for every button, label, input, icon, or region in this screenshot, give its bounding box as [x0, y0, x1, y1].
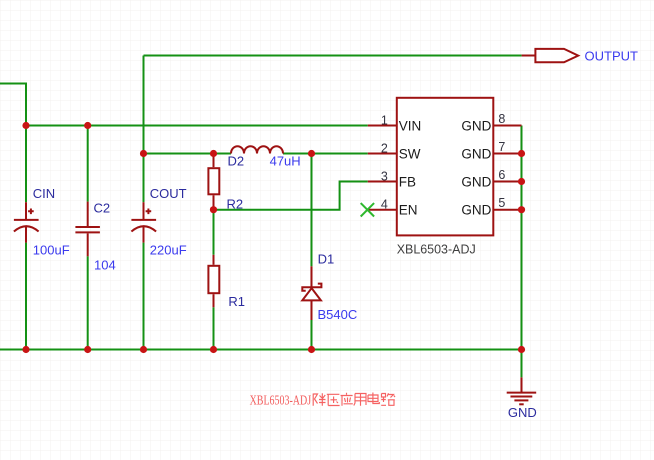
svg-text:OUTPUT: OUTPUT	[585, 48, 639, 63]
junction pin 5 / GND vertical	[518, 206, 525, 213]
char lu	[381, 393, 395, 405]
junction C2 / VIN rail	[84, 122, 91, 129]
svg-text:47uH: 47uH	[270, 153, 301, 168]
junction R2 bottom / FB net	[210, 206, 217, 213]
pin 8 stub	[493, 125, 521, 127]
junction pin 6 / GND vertical	[518, 178, 525, 185]
diode D1 B540C schottky	[302, 266, 321, 320]
svg-text:7: 7	[498, 140, 505, 154]
pin 1 stub	[368, 125, 397, 127]
svg-text:COUT: COUT	[150, 186, 187, 201]
wire R1 top	[213, 210, 215, 255]
svg-text:GND: GND	[461, 147, 491, 162]
svg-text:104: 104	[94, 257, 116, 272]
char dian	[368, 393, 379, 404]
svg-text:3: 3	[381, 170, 388, 184]
capacitor C2	[75, 202, 100, 257]
junction OUTPUT node / SW rail	[140, 150, 147, 157]
svg-text:D2: D2	[228, 153, 245, 168]
svg-text:GND: GND	[461, 118, 491, 133]
char ying	[341, 393, 353, 406]
wire OUTPUT vertical	[143, 56, 145, 203]
capacitor COUT	[131, 202, 156, 242]
pin 3 stub	[368, 181, 397, 183]
svg-text:R2: R2	[227, 196, 244, 211]
wire D1 drop	[311, 154, 313, 267]
wire ground rail	[0, 349, 522, 351]
pin 4 stub	[368, 209, 397, 211]
junction COUT / ground rail	[140, 346, 147, 353]
resistor R1	[208, 255, 219, 307]
junction GND vertical / ground rail	[518, 346, 525, 353]
svg-text:XBL6503-ADJ: XBL6503-ADJ	[397, 242, 476, 257]
pin 6 stub	[493, 181, 521, 183]
no-connect X on pin EN	[361, 203, 374, 216]
junction CIN / ground rail	[22, 346, 29, 353]
capacitor CIN	[14, 202, 39, 242]
svg-text:1: 1	[381, 113, 388, 127]
wire GND vertical right	[521, 126, 523, 378]
wire R1 bottom	[213, 307, 215, 349]
junction R1 / ground rail	[210, 346, 217, 353]
svg-text:FB: FB	[399, 175, 416, 190]
svg-text:GND: GND	[508, 405, 537, 420]
svg-text:8: 8	[498, 112, 505, 126]
svg-text:EN: EN	[399, 203, 418, 218]
svg-text:4: 4	[381, 198, 388, 212]
svg-text:220uF: 220uF	[150, 242, 187, 257]
svg-text:C2: C2	[94, 200, 111, 215]
pin 7 stub	[493, 153, 521, 155]
pin 5 stub	[493, 209, 521, 211]
svg-text:GND: GND	[461, 175, 491, 190]
wire SW rail right	[283, 153, 368, 155]
svg-text:D1: D1	[318, 252, 335, 267]
wire D1 bottom	[311, 320, 313, 350]
char jiang	[313, 393, 325, 406]
wire COUT bottom	[143, 243, 145, 350]
svg-text:CIN: CIN	[33, 186, 55, 201]
wire C2 drop	[87, 126, 89, 202]
wire CIN bottom	[25, 243, 27, 350]
wire input feed top-left	[0, 84, 26, 126]
port lead	[522, 55, 536, 57]
svg-text:B540C: B540C	[318, 307, 358, 322]
svg-text:SW: SW	[399, 147, 421, 162]
svg-text:5: 5	[498, 196, 505, 210]
wire SW rail left	[144, 153, 232, 155]
svg-text:GND: GND	[461, 203, 491, 218]
op IC U1 XBL6503-ADJ body	[397, 98, 494, 236]
svg-text:XBL6503-ADJ: XBL6503-ADJ	[250, 392, 312, 407]
char ya	[327, 394, 340, 405]
svg-text:6: 6	[498, 168, 505, 182]
ground symbol	[507, 377, 537, 404]
svg-text:R1: R1	[228, 294, 245, 309]
junction R2 top / SW rail	[210, 150, 217, 157]
svg-text:2: 2	[381, 142, 388, 156]
wire CIN drop	[25, 126, 27, 203]
caption CJK strokes (hand drawn)	[313, 393, 395, 406]
pin 2 stub	[368, 153, 397, 155]
junction D1 / ground rail	[308, 346, 315, 353]
wire OUTPUT horizontal	[144, 55, 522, 57]
wire FB jog	[214, 182, 368, 210]
junction C2 / ground rail	[84, 346, 91, 353]
char yong	[354, 394, 366, 406]
svg-text:100uF: 100uF	[33, 242, 70, 257]
port OUTPUT symbol	[535, 49, 578, 62]
resistor R2	[208, 154, 219, 210]
junction D1 / SW rail	[308, 150, 315, 157]
inductor D2 coil	[231, 146, 283, 153]
junction CIN / VIN rail	[22, 122, 29, 129]
svg-text:VIN: VIN	[399, 118, 422, 133]
junction pin 7 / GND vertical	[518, 150, 525, 157]
wire VIN rail	[26, 125, 368, 127]
wire C2 bottom	[87, 256, 89, 349]
